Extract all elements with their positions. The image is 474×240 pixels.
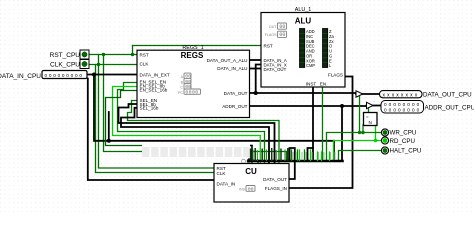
- subcircuit ALU_1 box: [261, 13, 345, 88]
- controlled buffer U3 (addr bus out): [367, 102, 374, 108]
- ALU pin labels INST EN (bottom): [306, 81, 326, 86]
- subcircuit CU_1 box: [214, 164, 289, 203]
- svg-text:RST: RST: [264, 43, 273, 48]
- svg-text:N: N: [369, 120, 372, 125]
- svg-text:HALT_CPU: HALT_CPU: [390, 147, 422, 154]
- wire RST_CPU to REGS.RST: [89, 54, 137, 56]
- subcircuit REGS_1 box: [137, 50, 250, 117]
- svg-text:OUT: OUT: [269, 25, 277, 29]
- faded component band above CU: [142, 144, 250, 159]
- wire buffer U3 enable to gate U4 top: [368, 108, 370, 112]
- node RST overhead: [131, 53, 134, 56]
- ALU pin labels DATA_IN_A / DATA_IN_X / DATA_OUT: [264, 58, 287, 72]
- svg-text:00000000: 00000000: [384, 108, 421, 113]
- wire REGS.EN_SEL_EN route to bus row: [118, 83, 265, 164]
- output pin WR_CPU: [381, 129, 416, 137]
- svg-text:SEL_16b: SEL_16b: [140, 106, 159, 111]
- wire addr bus REGS.ADDR_OUT to buffer U3: [250, 105, 367, 108]
- svg-text:DATA_OUT: DATA_OUT: [263, 177, 287, 182]
- REGS internal hex display A: [181, 73, 191, 79]
- node EN / buffer2 enable: [361, 131, 364, 134]
- svg-text:CLK: CLK: [217, 171, 227, 176]
- svg-text:xxxxxxxx: xxxxxxxx: [383, 92, 420, 98]
- wire RST branch riser to bus row: [104, 55, 287, 161]
- node data bus / ALU.DATA_IN_X: [254, 91, 258, 95]
- gate U4 (enable logic box): [364, 113, 378, 126]
- svg-text:PC: PC: [178, 91, 183, 95]
- wire ALU.DATA_IN_X branch from data bus: [256, 65, 261, 94]
- wire REGS.SEL_16b route to bus row: [121, 108, 269, 164]
- pi-cap wire at CU top-left pin: [249, 146, 252, 162]
- REGS pin labels right: [207, 58, 248, 109]
- wire REGS.EN_SEL_8b route to bus row: [113, 87, 261, 164]
- wire DATA_IN branch riser to bus row: [94, 75, 334, 161]
- input pin DATA_IN_CPU (8-bit): [0, 71, 87, 81]
- CU_1 label: [242, 159, 246, 163]
- svg-text:=: =: [366, 115, 369, 120]
- svg-text:DATA_OUT: DATA_OUT: [224, 91, 248, 96]
- node addr bus tap: [340, 104, 344, 108]
- svg-text:DATA_IN_CPU: DATA_IN_CPU: [0, 73, 41, 80]
- svg-text:CU: CU: [245, 167, 257, 176]
- wire RD net to RD_CPU: [334, 141, 382, 161]
- svg-text:EN: EN: [320, 81, 326, 86]
- svg-text:DATA_IN: DATA_IN: [217, 182, 236, 187]
- svg-text:ALU: ALU: [295, 17, 312, 26]
- wire gate U4 out to RD net: [375, 125, 377, 141]
- node RD / gate out: [374, 139, 377, 142]
- svg-text:00: 00: [248, 186, 254, 192]
- CU pin labels: [217, 166, 288, 191]
- wire data bus REGS.DATA_OUT to buffer U2: [250, 93, 357, 94]
- output pin DATA_OUT_CPU (8-bit): [380, 91, 472, 99]
- ALU FLAGS hex display: [265, 31, 287, 38]
- svg-text:000000000: 000000000: [45, 73, 84, 78]
- comb verticals above spine: [291, 150, 293, 161]
- wire CU.DATA_OUT riser: [289, 148, 295, 179]
- wire WR net to WR_CPU: [327, 133, 382, 161]
- svg-text:ADDR_OUT_CPU: ADDR_OUT_CPU: [425, 105, 474, 112]
- node bus row / aux riser: [107, 139, 111, 143]
- wire INST pi-jog: [308, 148, 314, 161]
- svg-text:DATA_OUT_CPU: DATA_OUT_CPU: [423, 91, 472, 98]
- wire ALU.FLAGS to CU.FLAGS_IN: [289, 77, 353, 189]
- svg-text:CLK_CPU: CLK_CPU: [50, 62, 80, 69]
- node WR / buffer enable: [358, 131, 361, 134]
- wire CLK riser to CU.CLK: [96, 65, 215, 173]
- ALU LED bar (flags): [323, 29, 335, 69]
- wire REGS.SEL_8b route to bus row: [119, 104, 275, 164]
- svg-text:DATA_IN_EXT: DATA_IN_EXT: [140, 73, 170, 78]
- svg-text:ADDR_OUT: ADDR_OUT: [222, 104, 247, 109]
- svg-text:0000: 0000: [185, 89, 198, 95]
- svg-text:WR_CPU: WR_CPU: [390, 130, 417, 137]
- wire aux black riser: [108, 112, 110, 141]
- bus spine above CU: [249, 160, 343, 163]
- wire REGS.EN_SEL_16b route to bus row: [106, 91, 253, 146]
- wire ALU.EN down to enable net: [322, 87, 324, 161]
- wire buffer U3 out to ADDR_OUT_CPU: [373, 105, 381, 107]
- wire ALU.DATA_OUT to REGS.DATA_IN_ALU: [250, 68, 262, 70]
- svg-text:DATA_OUT: DATA_OUT: [264, 67, 287, 72]
- svg-text:00: 00: [279, 24, 285, 30]
- controlled buffer U2 (data bus out): [356, 91, 363, 97]
- REGS internal hex display PC: [178, 89, 201, 95]
- input pin CLK_CPU: [50, 60, 89, 69]
- REGS internal hex display B: [181, 78, 191, 84]
- output pin ADDR_OUT_CPU (16-bit): [381, 101, 474, 114]
- wire CLK_CPU to REGS.CLK: [89, 64, 137, 66]
- wire buffer U2 out to DATA_OUT_CPU: [363, 93, 380, 95]
- node DATA_IN branch: [92, 73, 96, 77]
- svg-text:RST_CPU: RST_CPU: [50, 52, 81, 59]
- wire ALU.INST down: [312, 87, 314, 161]
- ALU OUT hex display: [269, 23, 287, 30]
- wire RST riser to CU.RST: [99, 55, 215, 169]
- svg-text:EN_SEL_16b: EN_SEL_16b: [140, 88, 168, 93]
- svg-text:00: 00: [279, 32, 285, 38]
- wire DATA_IN_CPU to REGS.DATA_IN_EXT: [87, 74, 137, 76]
- input pin RST_CPU: [50, 50, 89, 59]
- wire REGS.DATA_OUT_A_ALU to ALU.DATA_IN_A: [250, 59, 262, 61]
- svg-text:C: C: [180, 86, 183, 90]
- svg-text:INS: INS: [239, 188, 246, 192]
- ALU LED bar (operations): [300, 29, 316, 69]
- wire RST overhead to ALU.RST: [133, 46, 262, 55]
- svg-text:FLAGS: FLAGS: [265, 33, 277, 37]
- wire DATA_IN riser to CU.DATA_IN: [88, 79, 214, 181]
- svg-text:FLAGS: FLAGS: [328, 72, 343, 77]
- svg-text:INST: INST: [306, 81, 317, 86]
- svg-text:DATA_IN_ALU: DATA_IN_ALU: [217, 66, 247, 71]
- wire buffer U2 enable from WR net: [359, 97, 361, 133]
- svg-text:CLK: CLK: [140, 62, 150, 67]
- output pin RD_CPU: [381, 137, 415, 145]
- node RST branch: [102, 53, 105, 56]
- svg-text:00000000: 00000000: [384, 102, 421, 107]
- svg-text:REGS: REGS: [181, 51, 204, 60]
- CU internal hex display INST: [239, 186, 255, 193]
- wire HALT net to HALT_CPU: [339, 151, 382, 161]
- REGS pin labels left: [140, 53, 170, 111]
- REGS internal hex display C: [180, 84, 191, 90]
- node CLK riser: [97, 63, 100, 66]
- svg-text:DATA_OUT_A_ALU: DATA_OUT_A_ALU: [207, 58, 248, 63]
- wire REGS.SEL_EN route to bus row: [128, 101, 280, 164]
- svg-text:FLAGS_IN: FLAGS_IN: [265, 186, 287, 191]
- svg-text:CMP: CMP: [306, 63, 315, 68]
- wire bus tap near ALU right: [341, 106, 343, 161]
- junction nodes: [92, 53, 377, 143]
- svg-text:RD_CPU: RD_CPU: [390, 138, 415, 145]
- output pin HALT_CPU: [381, 147, 421, 154]
- svg-text:RST: RST: [140, 53, 149, 58]
- faded pin-label ticks above CU pins: [251, 148, 335, 161]
- wire gate U4 bottom-left pin to WR net: [362, 125, 364, 133]
